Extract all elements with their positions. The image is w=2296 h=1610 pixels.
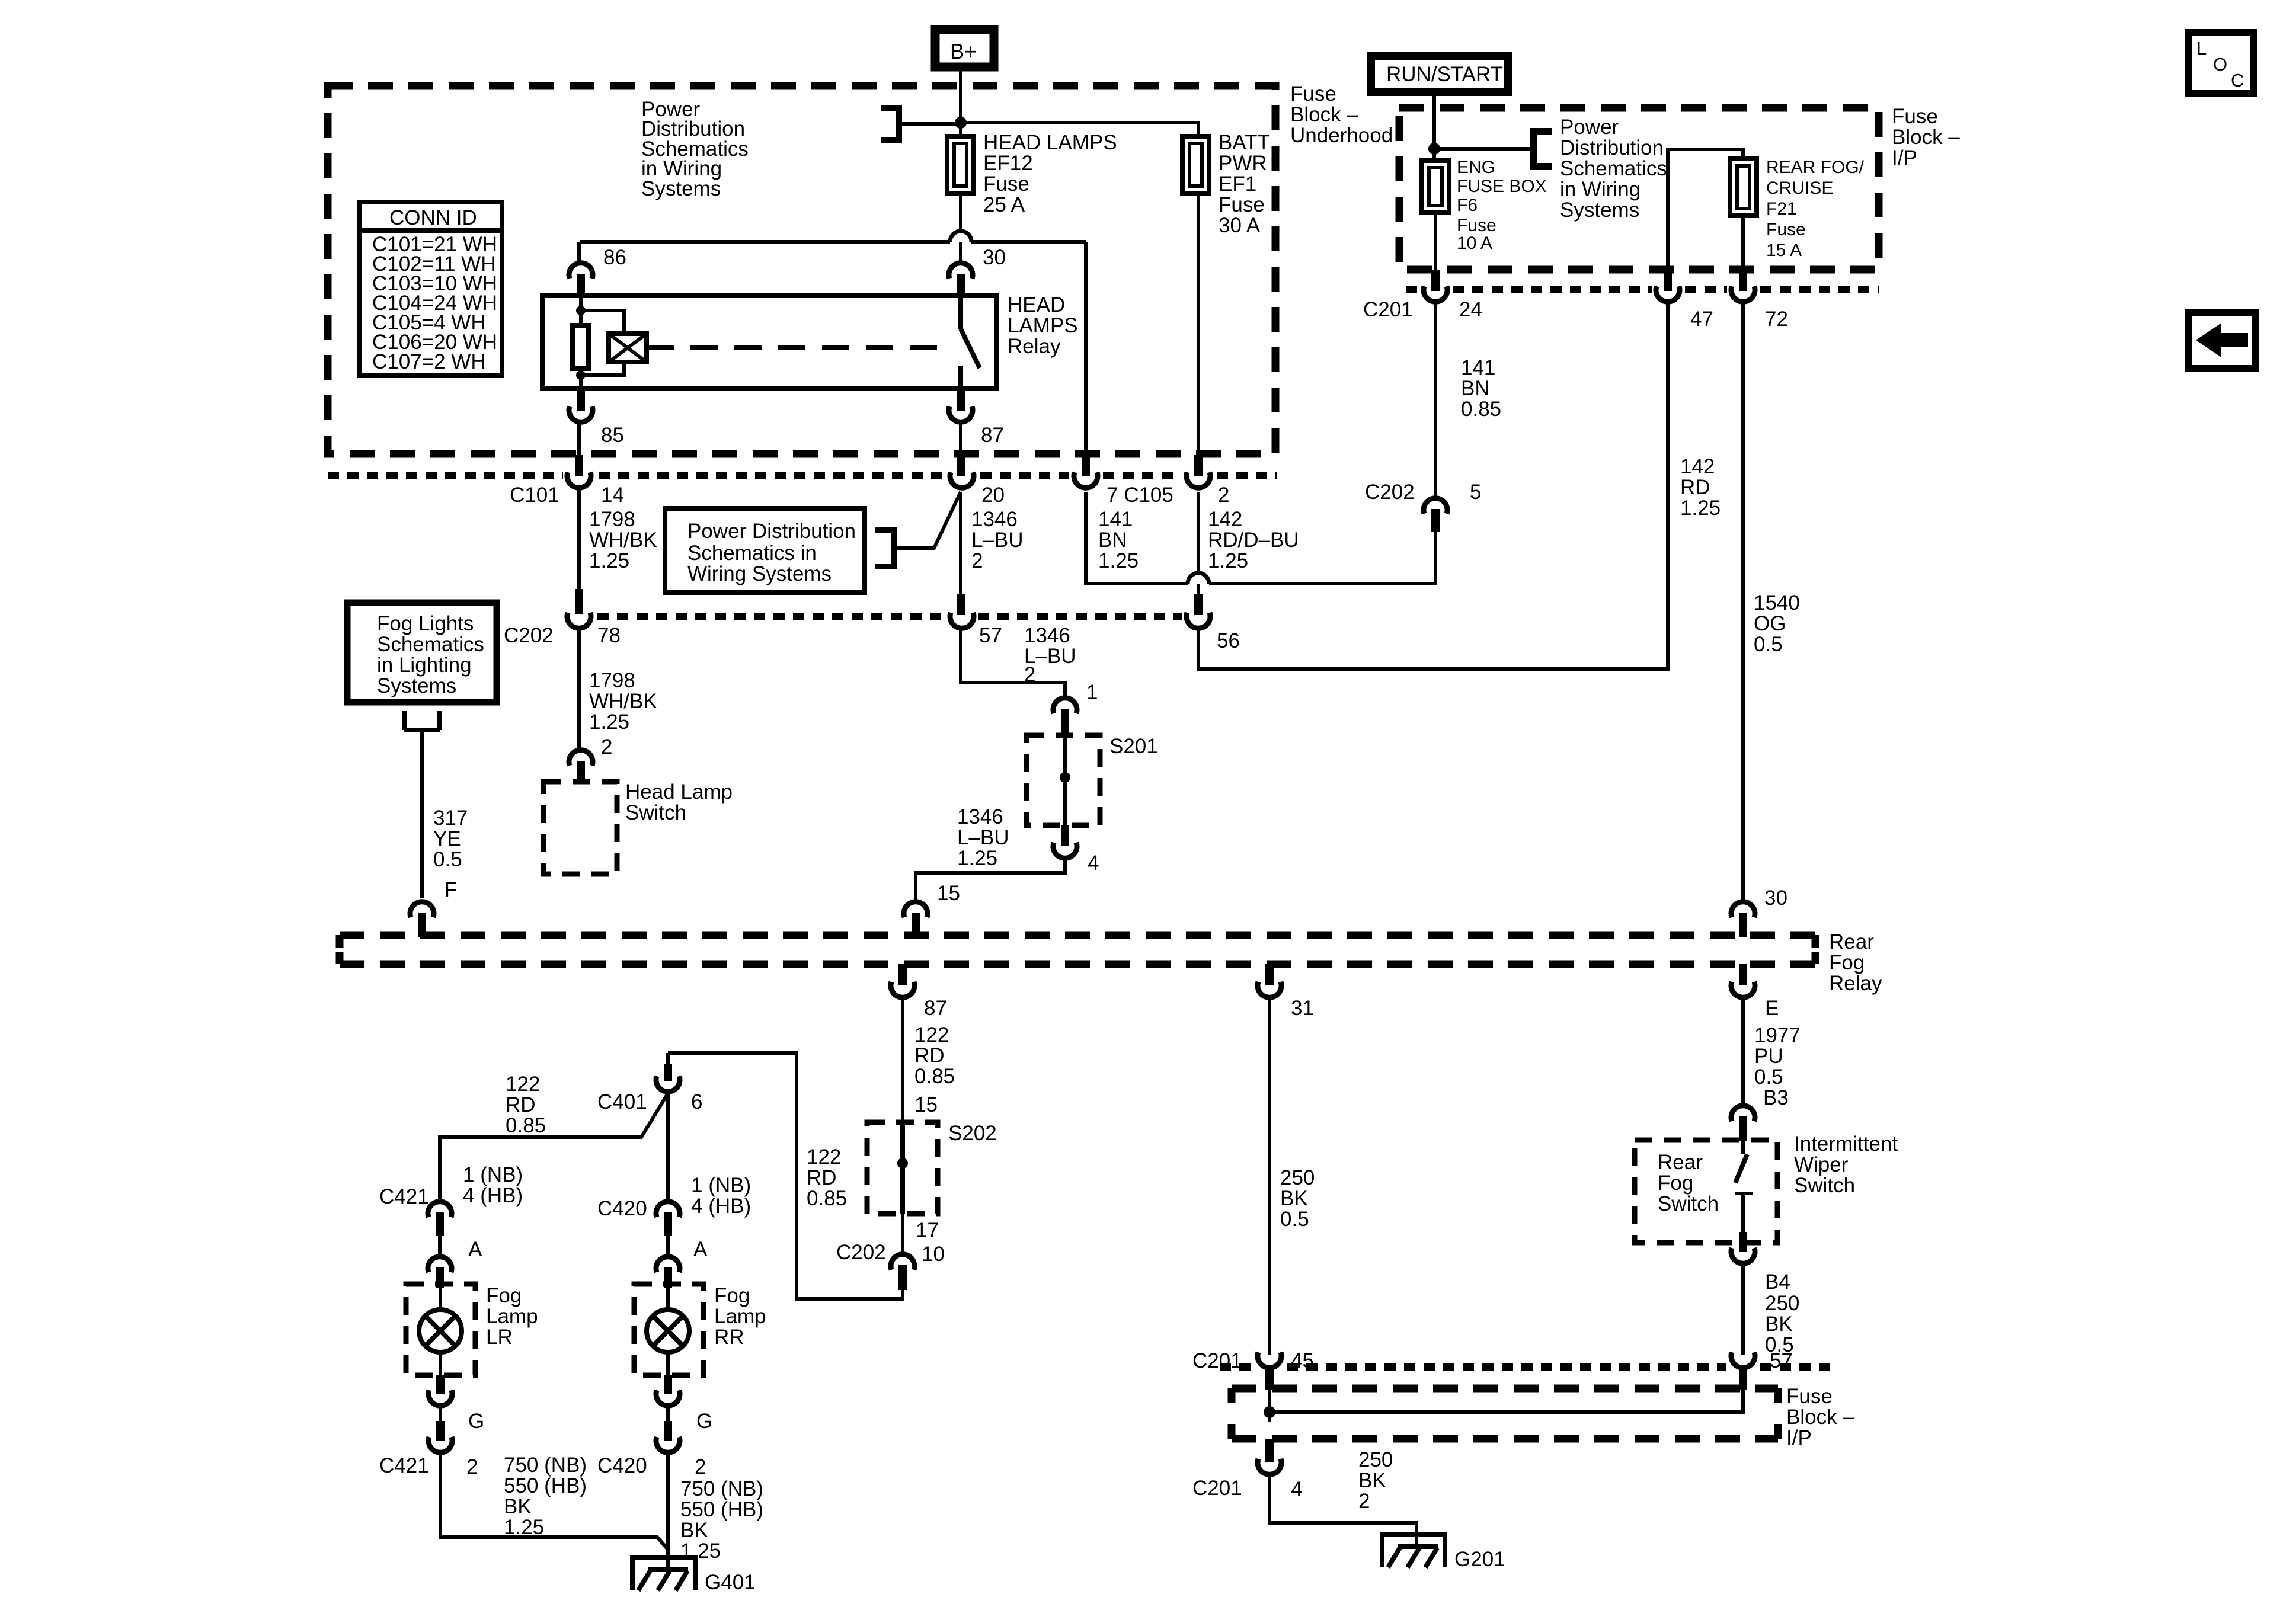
svg-text:1346: 1346 (971, 508, 1018, 531)
svg-text:15: 15 (914, 1093, 938, 1116)
svg-text:15 A: 15 A (1766, 241, 1802, 260)
svg-text:RD: RD (807, 1166, 837, 1189)
svg-text:10 A: 10 A (1457, 233, 1492, 253)
svg-text:G: G (696, 1410, 712, 1433)
wire B+ to junction (959, 67, 962, 136)
svg-text:C202: C202 (504, 624, 554, 647)
svg-text:57: 57 (979, 624, 1002, 647)
svg-text:Underhood: Underhood (1290, 124, 1393, 147)
switch blade (1735, 1141, 1747, 1183)
wire 142 RD to fuse block 47 (1198, 303, 1668, 669)
svg-text:122: 122 (914, 1023, 949, 1046)
svg-text:142: 142 (1208, 508, 1242, 531)
svg-text:2: 2 (695, 1455, 706, 1478)
head lamp switch dashed box (543, 782, 617, 874)
svg-text:1 (NB): 1 (NB) (691, 1174, 751, 1197)
svg-text:C201: C201 (1192, 1477, 1242, 1500)
wire pointer to connector 20 (894, 492, 961, 548)
wire F21 feed loop (1668, 149, 1743, 271)
connector 47 (1664, 270, 1672, 291)
svg-text:1346: 1346 (957, 805, 1003, 828)
svg-text:C420: C420 (597, 1197, 647, 1220)
wire C202 5 joins 141 BN (1086, 492, 1435, 584)
svg-text:7 C105: 7 C105 (1107, 484, 1173, 507)
wire 141 BN 0.85 (1434, 303, 1437, 497)
fuse EF1 BATT PWR 30A (1182, 136, 1209, 193)
svg-text:EF1: EF1 (1219, 172, 1256, 196)
connector G LR (436, 1375, 445, 1394)
svg-text:0.85: 0.85 (1461, 398, 1501, 421)
connector C101 pin 14 (575, 455, 583, 476)
svg-text:Block –: Block – (1892, 126, 1960, 149)
fog lights schematics box (347, 603, 497, 702)
svg-text:750 (NB): 750 (NB) (504, 1454, 587, 1477)
fuse F6 ENG FUSE BOX 10A (1422, 161, 1449, 213)
fuse block I/P dashed box (bottom) (1232, 1388, 1778, 1439)
svg-text:E: E (1765, 997, 1779, 1020)
wire C401 split to LR lamp (440, 1093, 668, 1201)
svg-text:550 (HB): 550 (HB) (680, 1498, 763, 1521)
svg-text:Relay: Relay (1829, 972, 1882, 995)
svg-text:G401: G401 (705, 1571, 756, 1594)
svg-text:122: 122 (506, 1073, 540, 1096)
svg-text:Fog: Fog (486, 1284, 522, 1307)
svg-text:142: 142 (1680, 455, 1715, 478)
svg-text:Rear: Rear (1829, 930, 1874, 953)
connector C105 pin 7 (1082, 455, 1090, 476)
svg-text:HEAD LAMPS: HEAD LAMPS (983, 131, 1117, 154)
fuse block underhood dashed box (328, 86, 1275, 454)
svg-text:Fog: Fog (714, 1284, 750, 1307)
svg-text:78: 78 (597, 624, 621, 647)
svg-text:14: 14 (601, 484, 624, 507)
svg-text:30 A: 30 A (1219, 214, 1261, 237)
svg-text:1.25: 1.25 (1208, 549, 1248, 572)
svg-text:85: 85 (601, 424, 624, 447)
svg-text:20: 20 (981, 484, 1005, 507)
svg-text:47: 47 (1690, 308, 1713, 331)
node junction run/start (1428, 143, 1440, 155)
svg-text:Fog: Fog (1658, 1172, 1693, 1195)
wire through S201 (1063, 735, 1067, 825)
svg-text:A: A (693, 1238, 708, 1261)
svg-text:Fuse: Fuse (1766, 220, 1806, 239)
wire 317 YE to rear fog relay F (420, 730, 424, 898)
connector 56 (1194, 594, 1203, 615)
svg-text:Wiper: Wiper (1794, 1153, 1849, 1176)
ground G401 (632, 1557, 695, 1590)
connector 30 into relay (949, 263, 973, 279)
svg-text:Distribution: Distribution (1560, 136, 1664, 159)
svg-text:56: 56 (1217, 629, 1240, 652)
relay switch blade (961, 296, 980, 388)
wire joining 45 and 57 inside fuse block (1269, 1389, 1743, 1412)
svg-text:RD: RD (506, 1093, 536, 1116)
svg-text:1.25: 1.25 (957, 847, 997, 870)
svg-text:0.5: 0.5 (1280, 1208, 1309, 1231)
svg-text:317: 317 (433, 806, 468, 830)
svg-text:122: 122 (807, 1145, 841, 1169)
svg-text:250: 250 (1765, 1292, 1799, 1315)
dotted connector line C201 top (1406, 286, 1879, 293)
svg-text:Systems: Systems (641, 177, 721, 200)
svg-text:FUSE BOX: FUSE BOX (1457, 177, 1547, 196)
connector C201 pin 45 (1258, 1352, 1281, 1368)
splice S201 dashed box (1027, 735, 1100, 825)
svg-text:141: 141 (1461, 356, 1495, 379)
svg-text:Lamp: Lamp (714, 1305, 766, 1328)
svg-text:1540: 1540 (1754, 591, 1800, 614)
svg-text:F21: F21 (1766, 199, 1797, 219)
svg-text:0.85: 0.85 (914, 1065, 955, 1088)
svg-text:BK: BK (1765, 1313, 1793, 1336)
connector 1 (1053, 698, 1077, 713)
connector C202 pin 78 (575, 589, 583, 614)
hop wire B over coil feed (950, 231, 971, 242)
rear fog switch dashed box (1635, 1140, 1777, 1243)
connector F into rear fog relay (410, 902, 434, 917)
svg-text:1.25: 1.25 (1098, 549, 1139, 572)
svg-text:Rear: Rear (1658, 1151, 1703, 1174)
svg-text:0.5: 0.5 (1754, 1065, 1783, 1089)
connector C401 pin 6 (666, 1053, 670, 1065)
svg-text:Power: Power (1560, 116, 1619, 139)
wire EF1 down to connector 2 (1197, 193, 1200, 456)
svg-text:87: 87 (981, 424, 1004, 447)
fog lamp RR bulb (666, 1288, 670, 1375)
svg-text:Switch: Switch (1794, 1174, 1855, 1197)
connector 87 below rear fog relay (898, 964, 907, 985)
svg-text:250: 250 (1358, 1448, 1393, 1471)
Power Distribution Schematics in Wiring Systems box (665, 508, 865, 593)
svg-text:Relay: Relay (1008, 335, 1061, 358)
connector 86 into relay (569, 263, 593, 279)
svg-text:45: 45 (1291, 1349, 1314, 1372)
svg-text:Fuse: Fuse (1290, 82, 1336, 105)
svg-text:2: 2 (601, 735, 612, 758)
fuse EF12 HEAD LAMPS 25A (947, 136, 974, 193)
svg-text:C420: C420 (597, 1454, 647, 1477)
svg-text:1798: 1798 (589, 508, 635, 531)
svg-text:in Wiring: in Wiring (1560, 178, 1641, 201)
svg-text:Fuse: Fuse (1786, 1385, 1833, 1408)
svg-text:in Lighting: in Lighting (377, 654, 472, 677)
svg-text:Fuse: Fuse (1219, 193, 1265, 216)
fuse F21 REAR FOG/CRUISE 15A (1730, 159, 1757, 216)
svg-text:Intermittent: Intermittent (1794, 1132, 1898, 1156)
svg-text:1798: 1798 (589, 669, 635, 692)
wire 1540 OG from 72 to relay 30 (1741, 303, 1745, 901)
connector 15 into rear fog relay (904, 902, 928, 917)
svg-text:C421: C421 (379, 1185, 429, 1208)
wire junction to EF1 fuse branch (961, 123, 1198, 136)
connector C421 bottom (436, 1421, 445, 1441)
fog lamp RR dashed box (634, 1284, 703, 1375)
wire junction to pointer bracket (1434, 147, 1533, 151)
svg-text:2: 2 (1218, 484, 1229, 507)
svg-text:LR: LR (486, 1326, 513, 1349)
connector 2 into head lamp switch (569, 750, 593, 766)
svg-text:0.85: 0.85 (506, 1114, 546, 1137)
dotted connector line C202 (597, 613, 1182, 620)
wire 142 from connector 2 through hop to 56 (1197, 492, 1200, 595)
svg-text:B+: B+ (950, 39, 977, 63)
relay actuator dashed link (647, 345, 944, 350)
connector C202 pin 10 (891, 1254, 914, 1270)
svg-text:Head Lamp: Head Lamp (625, 780, 733, 804)
svg-text:YE: YE (433, 827, 461, 850)
svg-text:C201: C201 (1192, 1349, 1242, 1372)
svg-text:Block –: Block – (1786, 1406, 1854, 1429)
LOC reference box (2188, 33, 2254, 94)
svg-text:2: 2 (971, 549, 983, 572)
connector C201 pin 4 (1268, 1412, 1271, 1422)
svg-text:EF12: EF12 (983, 152, 1033, 175)
svg-text:BK: BK (1280, 1187, 1308, 1210)
svg-text:4 (HB): 4 (HB) (463, 1184, 523, 1207)
svg-text:1.25: 1.25 (589, 549, 629, 572)
svg-text:0.85: 0.85 (807, 1187, 847, 1210)
wire relay coil feed 141 horizontal (580, 240, 1086, 244)
svg-text:BK: BK (680, 1519, 708, 1542)
svg-text:30: 30 (983, 246, 1006, 269)
svg-text:4: 4 (1088, 852, 1099, 875)
wire LR ground 750 BK (440, 1454, 668, 1550)
wire RR ground 750 BK (666, 1454, 670, 1570)
svg-text:S201: S201 (1109, 735, 1158, 758)
svg-text:RD/D–BU: RD/D–BU (1208, 529, 1299, 552)
wire 250 BK 0.5 to C201 57 (1741, 1265, 1745, 1355)
pointer bracket to Power Distribution Schematics (top left) (881, 108, 899, 140)
connector A RR (666, 1236, 670, 1256)
wire 85 to C101 (577, 424, 581, 457)
fog lamp LR dashed box (406, 1284, 475, 1375)
svg-text:Schematics: Schematics (377, 633, 484, 656)
svg-text:PU: PU (1754, 1045, 1783, 1068)
dotted connector line C101/C105 (328, 472, 1277, 479)
connector 57 into fuse block (1731, 1352, 1755, 1368)
wire EF12 to hop (959, 193, 962, 232)
svg-text:5: 5 (1470, 481, 1481, 504)
svg-text:1346: 1346 (1024, 624, 1070, 647)
svg-text:750 (NB): 750 (NB) (680, 1477, 763, 1500)
svg-text:Switch: Switch (625, 801, 686, 824)
connector E below rear fog relay (1739, 964, 1747, 985)
wire S202 to C202 pin 10 (901, 1214, 904, 1253)
svg-text:31: 31 (1291, 997, 1314, 1020)
svg-text:4: 4 (1291, 1478, 1302, 1501)
svg-text:L–BU: L–BU (971, 529, 1024, 552)
connector A LR (438, 1236, 442, 1256)
svg-text:WH/BK: WH/BK (589, 690, 657, 713)
svg-text:Power Distribution: Power Distribution (687, 520, 856, 543)
svg-text:L: L (2196, 38, 2207, 59)
B+ terminal box (935, 30, 994, 67)
svg-text:I/P: I/P (1892, 146, 1917, 169)
connector C420 bottom (664, 1421, 672, 1441)
svg-text:ENG: ENG (1457, 158, 1495, 177)
connector C201 pin 24 (1431, 270, 1440, 291)
connector 72 (1739, 270, 1747, 291)
svg-text:25 A: 25 A (983, 193, 1025, 216)
connector 2 (1194, 455, 1203, 476)
svg-text:C401: C401 (597, 1090, 647, 1113)
bracket below fog lights box (404, 711, 440, 730)
svg-text:G: G (468, 1410, 484, 1433)
svg-text:Schematics: Schematics (1560, 157, 1667, 180)
svg-text:OG: OG (1754, 612, 1786, 635)
svg-text:BN: BN (1461, 377, 1490, 400)
svg-text:Fuse: Fuse (1457, 216, 1496, 235)
svg-text:Fuse: Fuse (983, 172, 1029, 196)
svg-text:Wiring Systems: Wiring Systems (687, 562, 832, 585)
svg-text:BN: BN (1098, 529, 1127, 552)
wire F21 to connector 72 (1741, 216, 1745, 271)
svg-text:BK: BK (1358, 1469, 1386, 1492)
svg-text:Fog: Fog (1829, 951, 1865, 974)
svg-text:B4: B4 (1765, 1270, 1790, 1294)
connector 20 (957, 455, 965, 476)
wire A C101 to C202 (577, 489, 581, 589)
svg-text:WH/BK: WH/BK (589, 529, 657, 552)
svg-text:CONN ID: CONN ID (389, 206, 477, 229)
CONN ID table (360, 202, 502, 376)
svg-text:O: O (2213, 54, 2227, 75)
svg-text:2: 2 (466, 1455, 478, 1478)
svg-text:1.25: 1.25 (504, 1516, 544, 1539)
svg-text:Schematics in: Schematics in (687, 542, 817, 565)
svg-text:6: 6 (691, 1090, 702, 1113)
svg-text:C421: C421 (379, 1454, 429, 1477)
svg-text:250: 250 (1280, 1166, 1315, 1189)
svg-text:C201: C201 (1363, 298, 1413, 321)
svg-text:17: 17 (916, 1219, 939, 1242)
svg-text:HEAD: HEAD (1008, 293, 1065, 316)
wire coil feed right drop to C105 pin 7 (1084, 242, 1088, 456)
node junction B+ feed (955, 117, 967, 129)
svg-text:F6: F6 (1457, 196, 1478, 215)
fog lamp LR bulb (439, 1288, 442, 1375)
connector C421 top (428, 1202, 452, 1217)
svg-text:F: F (445, 878, 457, 901)
svg-text:0.5: 0.5 (1754, 633, 1783, 656)
svg-text:1.25: 1.25 (589, 710, 629, 734)
svg-text:Fuse: Fuse (1892, 105, 1938, 128)
connector 4 (1061, 825, 1069, 846)
svg-text:A: A (468, 1238, 482, 1261)
wire 1977 PU from E to B3 (1741, 999, 1745, 1105)
svg-text:87: 87 (924, 997, 947, 1020)
svg-text:Fog Lights: Fog Lights (377, 612, 474, 635)
svg-text:0.5: 0.5 (433, 848, 462, 871)
ground G201 (1382, 1534, 1445, 1567)
wire 122 RD from 87 to S202 (901, 999, 904, 1122)
svg-text:1977: 1977 (1754, 1024, 1801, 1047)
svg-text:CRUISE: CRUISE (1766, 178, 1833, 198)
svg-text:4 (HB): 4 (HB) (691, 1195, 751, 1218)
dotted connector line C201 bottom (1220, 1363, 1837, 1371)
navigation arrow box (2188, 312, 2255, 369)
svg-text:86: 86 (603, 246, 626, 269)
svg-text:1 (NB): 1 (NB) (463, 1163, 523, 1186)
svg-text:Systems: Systems (1560, 199, 1639, 222)
svg-text:1.25: 1.25 (1680, 497, 1721, 520)
RUN/START terminal box (1371, 56, 1508, 92)
hop wire 142 over 141 junction line (1188, 573, 1209, 584)
wire C401 down to RR lamp (666, 1093, 670, 1201)
connector 31 below rear fog relay (1265, 964, 1274, 985)
svg-text:Block –: Block – (1290, 103, 1358, 126)
svg-text:C: C (2231, 70, 2244, 91)
svg-text:141: 141 (1098, 508, 1133, 531)
wire 20 to 57 (959, 492, 962, 595)
svg-text:C202: C202 (836, 1241, 886, 1264)
svg-text:L–BU: L–BU (957, 826, 1009, 849)
pointer bracket from box to wire 1346 (875, 530, 894, 566)
wire coil feed left drop to 86 (577, 242, 581, 263)
svg-text:PWR: PWR (1219, 152, 1267, 175)
svg-text:72: 72 (1765, 308, 1788, 331)
svg-text:LAMPS: LAMPS (1008, 314, 1078, 337)
wire A C202 to head lamp switch (577, 630, 581, 749)
svg-text:REAR FOG/: REAR FOG/ (1766, 158, 1865, 177)
svg-text:B3: B3 (1763, 1086, 1789, 1109)
pointer bracket to Power Distribution Schematics (right) (1533, 132, 1552, 167)
connector G RR (664, 1375, 672, 1394)
connector 87 below relay (957, 388, 965, 411)
fuse block I/P dashed box (top) (1399, 108, 1879, 270)
connector B4 (1739, 1232, 1747, 1252)
wire 250 BK 2 to G201 (1269, 1476, 1416, 1548)
svg-text:C101: C101 (510, 484, 559, 507)
svg-text:C107=2 WH: C107=2 WH (372, 350, 486, 373)
svg-text:S202: S202 (948, 1122, 997, 1145)
wire 250 BK 0.5 from 31 (1268, 999, 1271, 1355)
svg-text:RD: RD (914, 1044, 945, 1067)
svg-text:C202: C202 (1365, 481, 1415, 504)
svg-text:15: 15 (937, 882, 960, 905)
wire through S202 (900, 1122, 905, 1214)
wire 4 to 15 (916, 859, 1065, 901)
svg-text:BK: BK (504, 1495, 532, 1518)
svg-text:RD: RD (1680, 476, 1710, 499)
rear fog relay dashed box (340, 932, 1815, 939)
splice S202 dashed box (867, 1122, 938, 1214)
svg-text:30: 30 (1764, 886, 1787, 910)
wire 57 to splice S201 (961, 630, 1065, 697)
relay suppression element (581, 311, 624, 375)
wire RUN/START to F6 (1432, 92, 1436, 162)
svg-text:1: 1 (1086, 681, 1098, 704)
svg-text:I/P: I/P (1786, 1426, 1812, 1449)
svg-text:Lamp: Lamp (486, 1305, 538, 1328)
svg-text:550 (HB): 550 (HB) (504, 1474, 587, 1497)
connector 57 (957, 594, 965, 615)
svg-text:G201: G201 (1454, 1548, 1505, 1571)
wire 87 to connector 20 (959, 424, 962, 457)
relay coil (579, 296, 583, 388)
svg-text:24: 24 (1459, 298, 1482, 321)
svg-text:RR: RR (714, 1326, 744, 1349)
svg-text:2: 2 (1358, 1490, 1370, 1513)
svg-text:10: 10 (922, 1243, 945, 1266)
connector B3 (1731, 1106, 1755, 1121)
relay box HEAD LAMPS Relay (542, 296, 997, 388)
connector C420 top (656, 1202, 680, 1217)
svg-text:Switch: Switch (1658, 1192, 1719, 1215)
svg-text:BATT: BATT (1219, 131, 1270, 154)
wire F6 to C201 pin 24 (1434, 213, 1437, 271)
